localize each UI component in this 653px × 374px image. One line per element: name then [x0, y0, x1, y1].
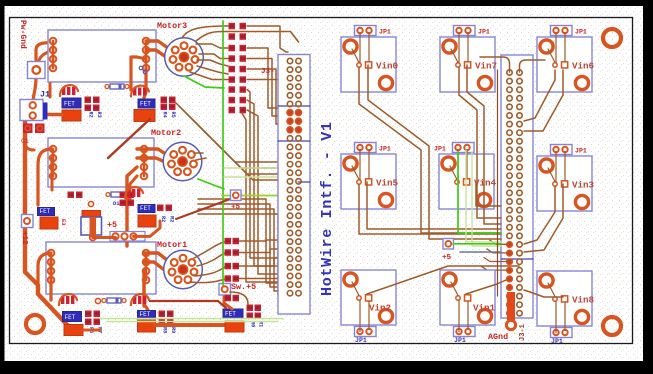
- node +5 pad: [231, 190, 242, 201]
- diode array D1: [60, 85, 78, 96]
- wire bundle Motor1 to ladder: [194, 242, 224, 258]
- wire Vin8 routes: [524, 290, 563, 297]
- svg-text:E3: E3: [60, 219, 67, 226]
- wire bundle ladder mid to J3 long: [247, 90, 286, 259]
- wire J4 curls top: [480, 57, 510, 72]
- svg-text:AGnd: AGnd: [488, 332, 508, 342]
- svg-text:Motor1: Motor1: [157, 240, 187, 250]
- wire +12 power rail left: [25, 118, 80, 330]
- wire K1 to Motor3: [146, 41, 175, 49]
- relay K1: [48, 30, 156, 82]
- diode D3: [106, 192, 130, 207]
- wire dark red horiz row3: [150, 301, 226, 308]
- diode array D6 row1 right: [131, 86, 149, 97]
- svg-text:Vin7: Vin7: [475, 61, 497, 72]
- wire green Motor2 stub: [198, 179, 224, 189]
- wire J4 stub hooks: [490, 240, 510, 244]
- node right +5 pad: [443, 239, 454, 250]
- node Sw+5 pad: [219, 284, 231, 296]
- svg-text:J1: J1: [40, 90, 50, 100]
- wire AGnd thick bar: [507, 292, 515, 320]
- wire green node stub: [453, 243, 501, 245]
- diode array D8 row3 right: [131, 294, 149, 305]
- wire Vin1 routes: [466, 280, 506, 294]
- svg-text:FET: FET: [65, 314, 76, 321]
- diode array D5 row3: [59, 294, 77, 305]
- svg-text:R5: R5: [170, 112, 176, 118]
- svg-text:R9: R9: [170, 327, 176, 333]
- svg-text:JP1: JP1: [575, 148, 587, 155]
- connector J3 dividers: [278, 105, 310, 107]
- resistor pair row2 left: [68, 192, 83, 199]
- wire GND green vertical: [222, 21, 224, 285]
- wire bundle Motor3 to ladder: [196, 44, 228, 48]
- transistor Q8 TO-92 row2: [81, 201, 102, 237]
- pad Q8 leg: [90, 235, 96, 241]
- wire bundle ladder to J3 top pads: [247, 26, 288, 52]
- svg-text:J3-: J3-: [261, 68, 275, 76]
- wire green Motor3 stub: [184, 76, 224, 88]
- pad Q4 tab: [134, 110, 155, 122]
- wire Pw-Gnd to relay K1 pad2: [38, 51, 55, 64]
- wire bundle left to J3 lower: [198, 199, 286, 283]
- wire Q6 to SW5 blob: [155, 323, 225, 327]
- transistor Q6 (FET) row3 right: [138, 311, 156, 319]
- pad AGnd: [506, 320, 515, 329]
- svg-text:JP1: JP1: [454, 337, 466, 344]
- wire K2 to Motor2: [137, 149, 172, 156]
- svg-text:JP1: JP1: [355, 337, 367, 344]
- svg-text:C1: C1: [21, 138, 29, 145]
- diode D2: [105, 84, 129, 89]
- svg-text:FET: FET: [40, 208, 51, 215]
- svg-text:Vin2: Vin2: [369, 303, 391, 314]
- pad Q2 tab row2: [40, 217, 58, 229]
- resistor pair row2 right outer: [157, 205, 172, 212]
- svg-text:JP1: JP1: [379, 146, 391, 153]
- pad Q7 tab: [225, 321, 244, 332]
- svg-text:HotWire Intf. - V1: HotWire Intf. - V1: [319, 122, 336, 296]
- wire K3 to Motor1: [144, 253, 172, 263]
- wire K2 down to driver row2: [127, 167, 137, 246]
- svg-text:D1: D1: [113, 200, 120, 207]
- wire bundle ladder to J3 upper: [247, 48, 286, 108]
- motor connector Motor2: [151, 128, 202, 181]
- connector J4 divider: [501, 258, 533, 260]
- transistor Q5 (FET) row2 right: [138, 205, 155, 213]
- svg-text:FET: FET: [225, 311, 236, 318]
- wire blue-gray stub: [460, 251, 501, 253]
- transistor Q1 (FET): [62, 98, 81, 108]
- resistor pairs row3 left: [85, 311, 100, 326]
- relay K3: [46, 242, 156, 294]
- wire H2 out: [134, 221, 161, 236]
- mounting hole top-right: [603, 29, 621, 47]
- svg-text:+12: +12: [20, 231, 28, 245]
- svg-text:FET: FET: [64, 101, 75, 108]
- resistor pair row1 right: [161, 97, 176, 111]
- motor connector Motor1: [157, 240, 202, 289]
- wire Sw+5 hook: [224, 297, 232, 309]
- svg-text:+5: +5: [231, 204, 241, 212]
- connector J4 pads: [507, 70, 523, 316]
- mounting hole bottom-right: [603, 317, 621, 335]
- wire Pw-Gnd to relay K1 pad1: [36, 42, 55, 63]
- svg-text:Motor3: Motor3: [157, 21, 187, 31]
- wire J4 left vertical: [497, 70, 499, 296]
- resistor ladder bank (top): [229, 23, 247, 114]
- node Pw-Gnd pad: [28, 62, 46, 79]
- pad Q3 tab: [64, 325, 83, 336]
- connector J4 body: [501, 55, 533, 318]
- transistor Q2 (FET) row2 left: [38, 208, 55, 216]
- connector module Vin4: [434, 143, 497, 210]
- relay K2: [48, 138, 154, 187]
- connector module Vin0: [341, 26, 398, 93]
- svg-text:Vin5: Vin5: [376, 178, 399, 189]
- wire dark red diag to +5 node: [176, 198, 233, 219]
- svg-text:JP1: JP1: [551, 338, 563, 345]
- pad Q1 tab: [62, 110, 81, 121]
- svg-text:Sw.+5: Sw.+5: [231, 282, 256, 292]
- svg-text:FET: FET: [140, 205, 151, 212]
- wire Q8 leg to H2: [93, 236, 116, 239]
- wire J1 to Q1 tab: [34, 113, 62, 117]
- wire Vin3 routes: [524, 186, 555, 244]
- capacitor C1: [21, 124, 45, 146]
- connector module Vin6: [537, 26, 594, 93]
- svg-text:Vin8: Vin8: [572, 295, 595, 306]
- motor connector Motor3: [157, 21, 203, 76]
- svg-text:+5: +5: [442, 254, 452, 262]
- connector J1: [20, 100, 48, 121]
- svg-text:R4: R4: [162, 112, 168, 118]
- mounting hole bottom-left: [26, 315, 44, 333]
- connector J3 pads: [287, 58, 302, 296]
- svg-text:Vin3: Vin3: [572, 180, 595, 191]
- wire green +5 node to J3: [222, 195, 289, 197]
- wire Vin0 routes: [359, 67, 501, 233]
- resistor pairs bottom centre: [247, 305, 262, 320]
- resistor ladder bank (motor1): [225, 238, 240, 301]
- connector module Vin2: [341, 270, 396, 344]
- resistor pairs row3 right: [159, 311, 174, 326]
- wire Q3 tab to Q6: [83, 329, 100, 332]
- pad Q5 tab: [138, 215, 156, 227]
- wire pale green pair to J3: [224, 167, 287, 169]
- node +12 pad: [22, 215, 34, 228]
- wire relay K1 pad3 down: [50, 60, 55, 97]
- svg-text:R8: R8: [162, 327, 168, 333]
- resistor R1 R2 pair row1 left: [85, 97, 100, 112]
- svg-text:+5: +5: [107, 220, 117, 230]
- wire ladder row2 to J3: [196, 32, 299, 43]
- wire dark red diag row1: [108, 119, 150, 158]
- svg-text:JP1: JP1: [379, 29, 391, 36]
- small pad row3: [95, 298, 100, 303]
- svg-text:Vin1: Vin1: [473, 303, 496, 314]
- svg-text:JP1: JP1: [478, 29, 490, 36]
- connector module Vin5: [341, 143, 399, 210]
- wire bundle motor1 ladder to J3: [240, 240, 287, 241]
- svg-text:Pw-Gnd: Pw-Gnd: [18, 20, 27, 49]
- wire pale green bottom pair: [100, 318, 283, 320]
- connector module Vin3: [537, 145, 595, 212]
- connector module Vin1: [440, 270, 496, 344]
- diode array D7 row2 right: [125, 187, 143, 198]
- wire Pw-Gnd down to J1: [33, 77, 36, 103]
- transistor Q7 (FET) bottom centre: [223, 309, 243, 318]
- pad Q6 tab: [138, 320, 156, 332]
- svg-text:FET: FET: [140, 311, 151, 318]
- resistor pair row2 right: [120, 192, 135, 207]
- wire diagonal band motor2 area: [175, 102, 286, 162]
- wire Vin2 routes: [367, 266, 519, 294]
- svg-text:R2: R2: [169, 216, 175, 222]
- header H2 3-pin: [110, 232, 145, 242]
- connector J3 body: [278, 55, 310, 315]
- svg-text:R2: R2: [88, 112, 94, 118]
- svg-text:JP1: JP1: [575, 29, 587, 36]
- wire motor2 stubs: [194, 152, 203, 154]
- wire Vin5 routes: [359, 184, 501, 234]
- svg-text:FET: FET: [140, 101, 151, 108]
- svg-text:Vin0: Vin0: [376, 61, 398, 72]
- svg-text:R3: R3: [96, 112, 102, 118]
- transistor Q4 (FET) row1 right: [138, 99, 155, 108]
- svg-text:JP1: JP1: [434, 146, 446, 153]
- diode D4: [102, 298, 126, 303]
- wire K3 left pads: [38, 253, 51, 290]
- wire K1 down to driver row1: [131, 57, 146, 90]
- wire Vin6 routes: [524, 70, 555, 121]
- wire Vin4 routes: [476, 184, 501, 206]
- wire Vin7 routes: [459, 67, 501, 218]
- transistor Q3 (FET) row3 left: [63, 312, 82, 322]
- svg-text:Motor2: Motor2: [151, 128, 181, 138]
- connector module Vin8: [537, 271, 595, 345]
- wire K2 left pads: [38, 149, 52, 205]
- wire K3 down to driver row3: [142, 271, 145, 306]
- wire green right verticals: [458, 152, 501, 233]
- via pair motor3 left: [139, 66, 143, 70]
- svg-text:Vin6: Vin6: [572, 61, 594, 72]
- svg-text:J3-1: J3-1: [519, 324, 527, 341]
- connector module Vin7: [440, 26, 497, 93]
